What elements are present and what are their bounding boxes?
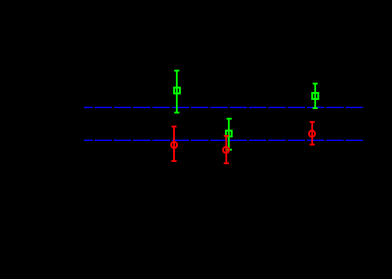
red series point 3: error bar: [310, 122, 315, 145]
red series point 2: error bar: [224, 136, 229, 164]
green series point 2: square marker: [226, 131, 232, 137]
red series point 1: circle marker: [171, 142, 177, 148]
green series point 3: error bar: [313, 84, 318, 109]
green series point 1: square marker: [174, 88, 180, 94]
dashed reference line 1 (upper, blue): [84, 106, 364, 108]
red series point 2: circle marker: [223, 147, 229, 153]
green series point 1: error bar: [174, 71, 179, 113]
dashed reference line 2 (lower, blue): [84, 139, 364, 141]
green series point 3: square marker: [312, 93, 318, 99]
red series point 3: circle marker: [309, 131, 315, 137]
red series point 1: error bar: [171, 127, 176, 162]
green series point 2: error bar: [227, 119, 233, 150]
